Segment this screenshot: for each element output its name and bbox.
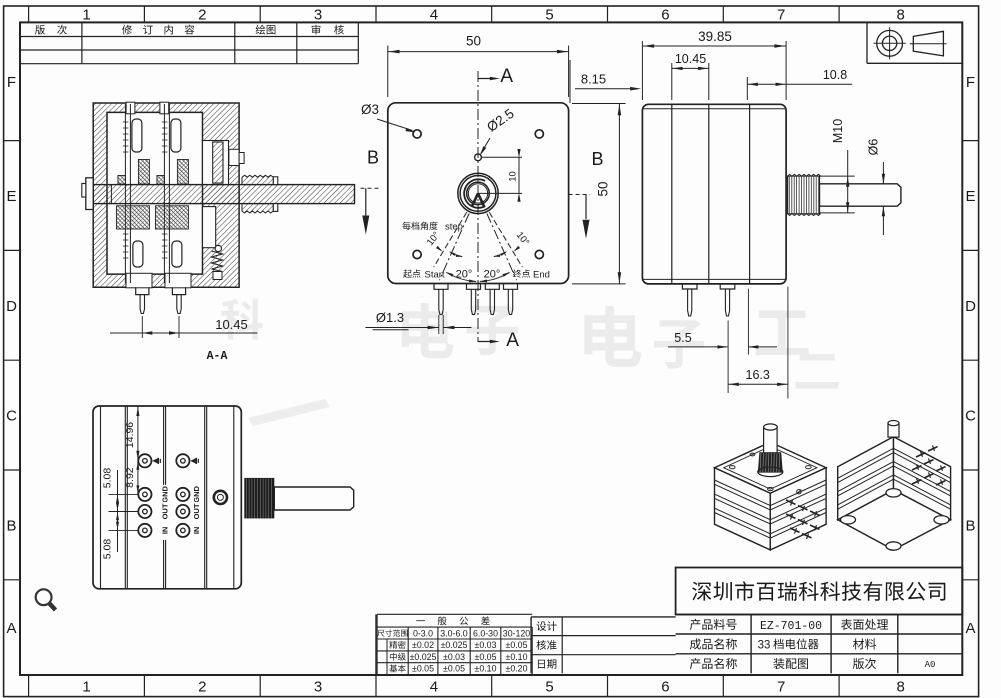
svg-text:10.45: 10.45 (215, 317, 248, 332)
svg-text:End: End (533, 270, 550, 281)
angle fan (439, 214, 469, 281)
iso2 layer lines (838, 448, 951, 478)
section A bottom (478, 341, 495, 343)
right wall cutout upper (203, 141, 229, 185)
side dividers (671, 104, 673, 284)
iso1 layer lines (715, 480, 827, 506)
section housing hatched ring (93, 103, 239, 287)
bottom view threads dark (244, 478, 274, 519)
svg-text:1: 1 (82, 679, 90, 696)
svg-text:3: 3 (314, 679, 322, 696)
dim 10.45 (671, 63, 673, 100)
iso2 pins (912, 466, 922, 470)
iso2 feet (841, 516, 856, 524)
svg-text:±0.03: ±0.03 (475, 640, 497, 650)
iso2 left face (838, 437, 894, 520)
svg-text:30-120: 30-120 (503, 628, 530, 638)
svg-text:A: A (965, 620, 975, 637)
svg-text:±0.02: ±0.02 (412, 640, 434, 650)
svg-text:Ø6: Ø6 (867, 139, 881, 156)
iso2 shaft stub (888, 423, 899, 437)
dim 50 top (387, 46, 389, 98)
threads (788, 176, 820, 214)
watermark (221, 298, 263, 339)
top wall notches (126, 102, 135, 114)
dim 8.92 (137, 461, 139, 495)
center knob (458, 173, 498, 213)
svg-text:±0.10: ±0.10 (506, 652, 528, 662)
iso1 left face (715, 468, 771, 550)
design table (531, 616, 676, 618)
svg-text:8: 8 (897, 7, 905, 24)
dim 10 (482, 156, 523, 158)
svg-text:C: C (6, 408, 17, 425)
svg-text:20°: 20° (484, 269, 501, 281)
svg-text:±0.10: ±0.10 (475, 664, 497, 674)
iso1 top face marks (729, 466, 735, 469)
svg-text:B: B (367, 147, 379, 167)
svg-text:C: C (965, 408, 976, 425)
dim dia6 (882, 162, 884, 184)
svg-text:OUT: OUT (192, 503, 201, 519)
fan 20deg arcs (447, 273, 477, 282)
svg-text:5.08: 5.08 (102, 468, 114, 489)
svg-text:5: 5 (545, 7, 553, 24)
svg-text:A-A: A-A (207, 350, 228, 363)
svg-text:F: F (966, 74, 975, 91)
svg-text:E: E (965, 188, 975, 205)
magnifier icon (36, 589, 52, 605)
dim 10.8 (746, 77, 748, 100)
svg-text:M10: M10 (831, 119, 845, 143)
svg-text:A: A (6, 620, 16, 637)
svg-text:EZ-701-00: EZ-701-00 (760, 620, 822, 633)
svg-text:6: 6 (661, 7, 669, 24)
iso1 bushing dark (758, 452, 783, 472)
dim 14.96 (137, 406, 139, 461)
tolerance table (375, 614, 377, 675)
bottom view dividers (100, 406, 102, 589)
right wall tab (239, 153, 244, 164)
svg-text:5: 5 (545, 679, 553, 696)
svg-text:4: 4 (430, 679, 438, 696)
svg-text:3.0-6.0: 3.0-6.0 (440, 628, 467, 638)
svg-text:±0.025: ±0.025 (441, 640, 468, 650)
svg-text:4: 4 (430, 7, 438, 24)
svg-text:8: 8 (897, 679, 905, 696)
svg-text:6: 6 (661, 679, 669, 696)
side view body (642, 104, 786, 284)
svg-text:14.96: 14.96 (124, 422, 136, 448)
svg-text:5.08: 5.08 (102, 539, 114, 560)
title table (676, 614, 963, 616)
svg-text:D: D (965, 298, 976, 315)
svg-text:GND: GND (192, 485, 201, 502)
vertical centerline (477, 71, 479, 342)
svg-text:±0.03: ±0.03 (443, 652, 465, 662)
svg-text:D: D (6, 298, 17, 315)
svg-text:OUT: OUT (161, 503, 170, 519)
center hole bottom view (214, 491, 227, 504)
svg-text:IN: IN (161, 527, 170, 535)
svg-text:50: 50 (596, 181, 611, 196)
iso1 right face (770, 468, 826, 550)
svg-text:33: 33 (758, 639, 771, 651)
dim 8.15 (569, 60, 571, 103)
svg-text:8.15: 8.15 (581, 72, 606, 87)
iso2 right face (894, 437, 951, 520)
small hole 2.5 (475, 154, 482, 161)
dim 50 right (572, 103, 626, 105)
bottom view shaft (274, 487, 353, 510)
svg-text:39.85: 39.85 (698, 29, 732, 44)
svg-text:±0.20: ±0.20 (506, 664, 528, 674)
svg-text:±0.025: ±0.025 (410, 652, 437, 662)
iso1 pins (786, 500, 796, 504)
dims 5.08 (109, 493, 138, 495)
svg-text:B: B (965, 517, 975, 534)
spring detail (212, 251, 223, 272)
section shaft (93, 185, 354, 204)
svg-text:1: 1 (82, 7, 90, 24)
svg-text:5.5: 5.5 (674, 331, 691, 345)
svg-text:±0.05: ±0.05 (506, 640, 528, 650)
svg-text:Ø3: Ø3 (361, 102, 379, 117)
bottom view body (93, 406, 241, 589)
svg-text:IN: IN (192, 527, 201, 535)
svg-text:A0: A0 (925, 660, 936, 670)
svg-text:±0.05: ±0.05 (443, 664, 465, 674)
revision table (20, 36, 358, 38)
svg-text:A: A (506, 330, 519, 351)
svg-text:Start: Start (425, 270, 445, 281)
svg-text:Ø1.3: Ø1.3 (376, 310, 404, 325)
iso2 bottom face (838, 490, 951, 550)
dim 5.5 (668, 346, 727, 348)
terminal labels (160, 485, 169, 504)
dim 10.45 section (141, 316, 143, 338)
svg-text:10.8: 10.8 (823, 68, 847, 82)
svg-text:6.0-30: 6.0-30 (473, 628, 498, 638)
svg-text:7: 7 (777, 7, 785, 24)
terminals (138, 454, 151, 467)
iso1 shaft (764, 427, 778, 453)
shaft left cap (86, 178, 93, 210)
svg-text:±0.05: ±0.05 (475, 652, 497, 662)
svg-text:20°: 20° (456, 269, 473, 281)
svg-text:±0.05: ±0.05 (412, 664, 434, 674)
svg-text:A: A (500, 66, 513, 87)
bottom wall notches (126, 273, 152, 288)
svg-text:7: 7 (777, 679, 785, 696)
corner holes (413, 130, 421, 138)
svg-text:8.92: 8.92 (124, 467, 136, 488)
svg-text:0-3.0: 0-3.0 (413, 628, 433, 638)
svg-text:2: 2 (198, 7, 206, 24)
svg-text:E: E (6, 188, 16, 205)
bushing threads section (242, 175, 273, 184)
dim M10 (818, 175, 854, 177)
section A top (478, 78, 495, 80)
iso1 top face (715, 442, 827, 493)
dim 39.85 (641, 41, 643, 100)
front view body (388, 103, 569, 284)
right wall cutout lower (203, 207, 216, 248)
svg-text:50: 50 (466, 34, 481, 49)
svg-text:16.3: 16.3 (746, 368, 770, 382)
fan labels (402, 222, 437, 230)
fan 10deg arcs (450, 252, 462, 257)
projection symbol (866, 22, 868, 63)
side pins (682, 284, 697, 289)
section pins (136, 287, 149, 294)
svg-text:B: B (6, 517, 16, 534)
dim 16.3 (728, 383, 788, 385)
section stacks (124, 104, 126, 283)
svg-text:2: 2 (198, 679, 206, 696)
svg-text:B: B (591, 149, 603, 169)
svg-text:GND: GND (161, 485, 170, 502)
svg-text:10.45: 10.45 (675, 52, 706, 66)
svg-text:3: 3 (314, 7, 322, 24)
svg-text:10: 10 (508, 171, 519, 182)
front pins (434, 284, 448, 289)
shaft (820, 184, 901, 206)
company box (676, 568, 963, 615)
svg-text:step: step (445, 222, 463, 233)
terminal arrows (152, 458, 158, 464)
svg-text:F: F (7, 74, 16, 91)
